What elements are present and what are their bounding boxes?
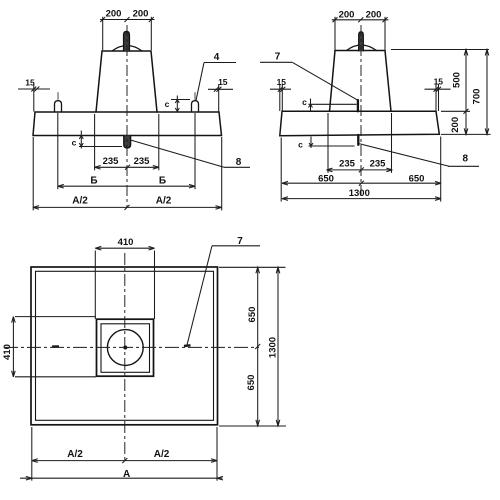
svg-text:7: 7: [237, 236, 243, 247]
svg-text:А: А: [123, 469, 130, 480]
svg-text:235: 235: [339, 158, 356, 169]
svg-text:650: 650: [246, 375, 257, 391]
svg-text:c: c: [72, 138, 77, 148]
svg-text:650: 650: [409, 174, 425, 185]
svg-text:c: c: [165, 99, 170, 109]
svg-text:А/2: А/2: [156, 196, 172, 207]
svg-text:8: 8: [463, 154, 469, 165]
svg-text:200: 200: [133, 9, 149, 20]
svg-text:15: 15: [434, 77, 444, 87]
svg-text:c: c: [302, 97, 307, 107]
svg-text:c: c: [298, 140, 303, 150]
svg-text:А/2: А/2: [72, 196, 88, 207]
svg-text:235: 235: [134, 156, 151, 167]
svg-text:200: 200: [106, 9, 122, 20]
svg-text:1300: 1300: [349, 188, 370, 199]
svg-text:15: 15: [277, 77, 287, 87]
svg-text:Б: Б: [159, 176, 166, 187]
svg-text:650: 650: [318, 174, 334, 185]
svg-text:15: 15: [25, 78, 35, 88]
svg-text:410: 410: [2, 344, 13, 360]
svg-text:200: 200: [339, 10, 355, 21]
svg-text:700: 700: [472, 89, 483, 105]
svg-text:650: 650: [247, 307, 258, 323]
svg-text:15: 15: [218, 77, 228, 87]
svg-text:1300: 1300: [268, 337, 279, 358]
svg-text:500: 500: [452, 72, 463, 88]
svg-text:235: 235: [370, 158, 387, 169]
svg-text:410: 410: [118, 237, 134, 248]
svg-text:А/2: А/2: [154, 449, 170, 460]
svg-text:200: 200: [450, 117, 461, 133]
svg-text:Б: Б: [90, 176, 97, 187]
svg-text:А/2: А/2: [67, 449, 83, 460]
svg-text:8: 8: [236, 157, 242, 168]
svg-text:4: 4: [214, 52, 220, 63]
svg-text:200: 200: [366, 10, 382, 21]
svg-text:235: 235: [103, 156, 120, 167]
svg-text:7: 7: [275, 52, 281, 63]
